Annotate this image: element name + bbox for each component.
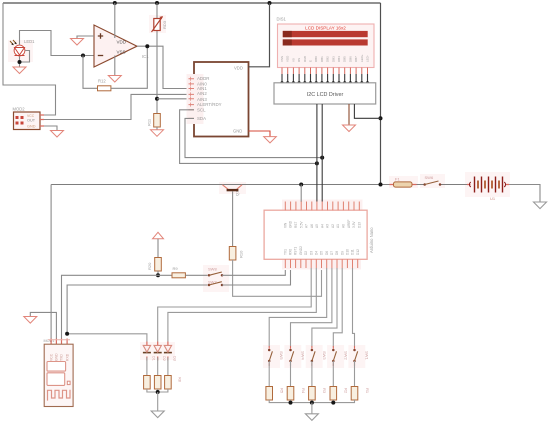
wire arduino D9 to switch SW2 (333, 268, 342, 347)
resistor R3 (309, 387, 328, 401)
svg-text:U1: U1 (490, 196, 496, 201)
svg-text:R9: R9 (173, 266, 179, 271)
wire LED1 top to opamp minus input (20, 31, 95, 56)
svg-text:A1: A1 (336, 224, 340, 228)
svg-text:DB7: DB7 (354, 56, 358, 62)
arduino bottom pin stubs (285, 259, 357, 268)
node diode rail (156, 390, 160, 394)
svg-text:D4: D4 (314, 251, 318, 255)
node R20 on TX line (156, 273, 160, 277)
wire arduino D8 to switch SW3 (312, 268, 337, 347)
wire LED1 bottom loop (20, 51, 30, 68)
LCD pin stubs (282, 68, 368, 75)
power +V supply arrow (153, 232, 164, 239)
wifi module ESP8266 MOD1 (44, 339, 74, 407)
svg-text:D11: D11 (351, 249, 355, 255)
svg-text:TXD: TXD (60, 354, 64, 361)
photodiode LED1 (10, 39, 35, 56)
svg-text:D7: D7 (330, 251, 334, 255)
svg-text:R5: R5 (280, 388, 285, 394)
resistor R6 (144, 376, 161, 390)
wire opamp VSS to ground (114, 56, 116, 76)
switch SW6 (423, 175, 441, 186)
resistor R12 (98, 79, 111, 91)
arduino top pin stubs (285, 202, 359, 211)
svg-text:GND: GND (27, 124, 36, 128)
svg-text:SDA: SDA (197, 116, 206, 121)
resistor R5 (266, 387, 285, 401)
svg-text:R10: R10 (239, 250, 244, 258)
svg-text:RST: RST (294, 222, 298, 228)
ADC ADS1115 U2 (187, 62, 249, 137)
wire power rail left drop to ESP VCC (50, 185, 52, 339)
wire driver SDA down to arduino A4 (321, 104, 323, 202)
node top rail / opamp VDD (113, 1, 117, 5)
switch SW7 (208, 279, 224, 286)
arduino nano U4 (264, 210, 374, 259)
wire SW7 to arduino RX0 (222, 270, 291, 285)
ground switches (305, 414, 318, 421)
op-amp IC1 (94, 25, 149, 67)
svg-text:R20: R20 (147, 262, 152, 270)
pin stubs left (189, 79, 195, 119)
svg-text:GND: GND (233, 129, 242, 134)
svg-text:TX1: TX1 (283, 249, 287, 255)
svg-text:D10: D10 (346, 249, 350, 255)
diode D1 (143, 342, 156, 361)
node +5V vertical / LCD driver VCC (379, 116, 383, 120)
svg-text:IC1: IC1 (142, 54, 149, 59)
I2C LCD driver U3 (274, 83, 376, 104)
wire R11 to ground (156, 127, 158, 130)
svg-text:LED1: LED1 (24, 39, 35, 44)
wire +5V vertical right (380, 3, 382, 185)
wire D3 to R8 (167, 358, 169, 376)
resistor R10 (229, 247, 243, 261)
fuse F1 (390, 177, 417, 188)
wire D2 to R7 (157, 358, 159, 376)
node SCL bus / arduino A5 riser (315, 161, 319, 165)
switch SW1 (353, 346, 369, 366)
node rail R2 (331, 401, 335, 405)
wire opamp output to AIN1 (137, 46, 189, 88)
svg-text:A4: A4 (320, 224, 324, 228)
svg-text:VSS: VSS (280, 56, 284, 62)
wire SW8 to arduino TX1 (222, 270, 285, 275)
wire Q1 base down to R10 (232, 191, 234, 246)
ground ADS (264, 137, 277, 143)
ground opamp VSS (108, 76, 121, 83)
wire diode rail to ground (157, 392, 159, 411)
resistor R20 (147, 258, 161, 272)
svg-text:D5: D5 (320, 251, 324, 255)
wire SW1 to R1 (354, 361, 356, 387)
svg-text:SW2: SW2 (343, 351, 348, 360)
wire ADS GND pin (249, 131, 271, 137)
switch SW4 (289, 346, 305, 366)
wire diode common rail (147, 389, 168, 392)
svg-text:5.5V: 5.5V (299, 221, 303, 228)
svg-text:I2C LCD Driver: I2C LCD Driver (307, 92, 344, 98)
ground MOD2 (51, 131, 64, 138)
svg-text:A7: A7 (305, 224, 309, 228)
wire top power rail (3, 2, 381, 4)
resistor R2 (330, 387, 349, 401)
svg-text:Arduino Nano: Arduino Nano (369, 227, 374, 253)
svg-text:DB6: DB6 (348, 56, 352, 62)
resistor R8 (165, 376, 182, 390)
thermistor RD3 (152, 3, 168, 114)
ground LED1 (13, 67, 26, 74)
svg-text:VDD: VDD (117, 40, 127, 45)
wire MOD2 OUT to ADS AIN2 (44, 94, 189, 119)
wire arduino D11 to switch SW1 (353, 268, 355, 347)
wire LCD pins to driver (282, 74, 368, 83)
LCD display DIS1 (277, 17, 375, 68)
node top rail / thermistor (155, 1, 159, 5)
arduino bottom pin labels (283, 246, 359, 255)
wire SW2 to R2 (332, 361, 334, 387)
wire ADS SDA to I2C bus (185, 118, 322, 157)
svg-text:RX0: RX0 (289, 249, 293, 255)
svg-text:A3: A3 (326, 224, 330, 228)
svg-text:SCL: SCL (197, 107, 206, 112)
wire main power rail horizontal (51, 184, 467, 186)
wire SW3 to R3 (311, 361, 313, 387)
svg-text:DB5: DB5 (343, 56, 347, 62)
svg-text:SW4: SW4 (301, 351, 306, 360)
svg-text:D12: D12 (356, 249, 360, 255)
ground opamp plus input (71, 39, 84, 46)
resistor R7 (154, 376, 171, 390)
wire driver SCL down to arduino A5 (316, 104, 318, 202)
svg-text:SW6: SW6 (425, 175, 434, 180)
svg-text:E: E (309, 60, 313, 62)
wire SW5 to R5 (268, 361, 270, 387)
ground R11 (151, 130, 164, 137)
svg-text:VCC: VCC (27, 114, 35, 118)
wire ADS VDD to top rail (249, 3, 270, 67)
wire thermistor node to AIN3 (157, 98, 189, 100)
node LED1 cathode (18, 60, 22, 64)
wire R12 right to opamp output (111, 46, 147, 88)
svg-text:LCD DISPLAY 16x2: LCD DISPLAY 16x2 (305, 26, 346, 31)
wire RX line B: ESP RXD riser (67, 285, 207, 334)
svg-text:GND: GND (289, 220, 293, 228)
svg-text:D9: D9 (340, 251, 344, 255)
svg-text:SW3: SW3 (322, 351, 327, 360)
node power rail / +5V vertical (379, 183, 383, 187)
wire R20 to TX line (157, 271, 159, 275)
svg-text:R2: R2 (344, 388, 349, 394)
svg-text:LED-: LED- (366, 55, 370, 62)
switch SW2 (332, 346, 348, 366)
wire arduino 5V riser (300, 185, 302, 203)
resistor R4 (287, 387, 306, 401)
svg-text:SW5: SW5 (279, 351, 284, 360)
wire driver GND (348, 104, 350, 125)
svg-text:Q1: Q1 (235, 190, 240, 196)
svg-text:D3: D3 (309, 251, 313, 255)
svg-text:F1: F1 (395, 177, 400, 182)
svg-text:R8: R8 (178, 377, 182, 382)
svg-text:A6: A6 (310, 224, 314, 228)
svg-text:R4: R4 (301, 388, 306, 394)
nodes LCD pins on driver top (280, 81, 369, 84)
wire arduino D7 to switch SW4 (291, 268, 332, 347)
switch SW8 (208, 266, 224, 276)
svg-text:OUT: OUT (27, 118, 36, 122)
svg-text:VDD: VDD (286, 55, 290, 62)
svg-text:D3: D3 (172, 356, 176, 361)
wire driver VCC to +5V vertical (354, 104, 380, 118)
node top rail / ADS VDD riser (268, 1, 272, 5)
node SDA bus / arduino A4 riser (320, 156, 324, 160)
arduino top pin labels (283, 219, 361, 228)
svg-text:R12: R12 (98, 79, 106, 84)
wire left rail down to MOD2 (3, 3, 56, 115)
svg-text:DB2: DB2 (326, 56, 330, 62)
wire arduino D4 to diode D3 branch (168, 268, 316, 342)
diode D3 (164, 342, 177, 361)
wire feedback from minus input down (83, 56, 98, 89)
svg-text:AREF: AREF (347, 219, 351, 228)
wire D1 to R6 (146, 358, 148, 376)
node rail R4 (289, 401, 293, 405)
svg-text:D1: D1 (151, 356, 155, 361)
wire ADS SCL to I2C bus (180, 110, 317, 164)
resistor R9 (172, 266, 185, 278)
wire ESP GND to ground (30, 312, 56, 338)
wire rail to ground (311, 403, 313, 414)
diode D2 (154, 342, 167, 361)
module MOD2 gas sensor (13, 107, 45, 129)
svg-text:AIN2: AIN2 (197, 91, 207, 96)
svg-text:3.3V: 3.3V (352, 221, 356, 228)
svg-text:R3: R3 (322, 388, 327, 394)
wire switches common rail (269, 400, 354, 403)
svg-text:VSS: VSS (117, 50, 126, 55)
svg-text:D8: D8 (335, 251, 339, 255)
node power rail / arduino 5V riser (299, 183, 303, 187)
battery U1 (467, 177, 509, 202)
wire SW4 to R4 (290, 361, 292, 387)
svg-text:MOD2: MOD2 (13, 107, 26, 112)
node opamp output (145, 44, 149, 48)
wire arduino D6 to switch SW5 (269, 268, 327, 347)
resistor R11 (147, 114, 161, 128)
svg-text:V0: V0 (291, 58, 295, 62)
svg-text:D13: D13 (357, 222, 361, 228)
svg-text:DB4: DB4 (337, 56, 341, 62)
wire arduino D3 to diode D2 branch (158, 268, 312, 342)
switch SW3 (311, 346, 327, 366)
svg-text:GND2: GND2 (299, 246, 303, 255)
svg-text:D2: D2 (304, 251, 308, 255)
svg-text:D6: D6 (325, 251, 329, 255)
node rail R3 (310, 401, 314, 405)
svg-text:R11: R11 (147, 118, 152, 126)
ground ESP (24, 317, 37, 324)
svg-text:R/W: R/W (303, 56, 307, 62)
svg-text:VCC: VCC (49, 353, 53, 361)
wire R10 to arduino D5 (233, 260, 322, 296)
ground battery (534, 202, 547, 209)
node thermistor / R11 / AIN3 (155, 97, 159, 101)
svg-text:A2: A2 (331, 224, 335, 228)
svg-text:R1: R1 (365, 388, 370, 394)
svg-text:SW8: SW8 (208, 266, 217, 271)
wire opamp VDD from top rail (114, 3, 116, 38)
ground LCD driver (343, 125, 356, 132)
svg-text:RS: RS (297, 58, 301, 62)
switch SW5 (268, 346, 284, 366)
wire opamp plus input stub (77, 36, 94, 38)
ground diodes (151, 411, 164, 418)
wire MOD2 GND (44, 126, 57, 131)
wire battery to ground (509, 185, 540, 203)
component highlight halos (8, 15, 510, 368)
svg-text:GND: GND (55, 353, 59, 361)
svg-text:DB1: DB1 (320, 56, 324, 62)
svg-text:A5: A5 (315, 224, 319, 228)
svg-text:VIN: VIN (283, 222, 287, 228)
svg-text:VDD: VDD (234, 66, 243, 71)
svg-text:SW1: SW1 (365, 351, 370, 360)
svg-text:DB0: DB0 (314, 56, 318, 62)
wire TX line A: ESP TXD to resistor R9 (62, 275, 173, 338)
node ESP RXD / D1 (65, 332, 69, 336)
wire R9 to switch SW8 (185, 274, 207, 276)
svg-text:A0: A0 (342, 224, 346, 228)
resistor R1 (351, 387, 370, 401)
svg-text:RD3: RD3 (162, 20, 167, 29)
svg-text:D2: D2 (162, 356, 166, 361)
diode D1 branch wire from ESP RXD node (67, 334, 147, 342)
svg-text:LED+: LED+ (360, 54, 364, 62)
svg-text:RST1: RST1 (294, 247, 298, 255)
transistor Q1 (223, 185, 243, 196)
node opamp inverting input (81, 54, 85, 58)
wire +V to R20 (157, 239, 159, 258)
svg-text:RXD: RXD (65, 353, 69, 361)
svg-text:DIS1: DIS1 (277, 17, 287, 22)
svg-text:DB3: DB3 (331, 56, 335, 62)
LCD pin labels (280, 54, 370, 62)
